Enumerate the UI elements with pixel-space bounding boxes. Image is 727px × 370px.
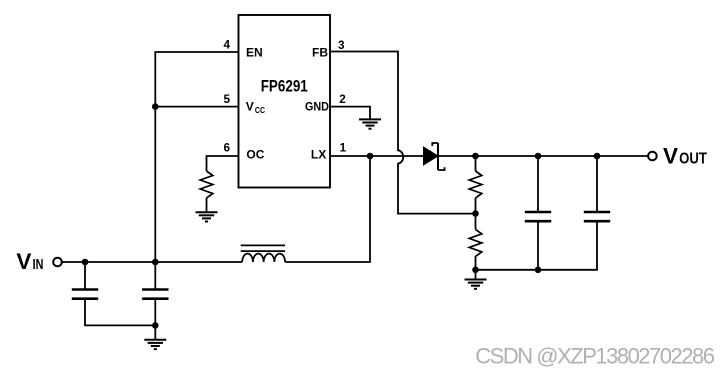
svg-text:OUT: OUT (679, 151, 707, 168)
svg-text:CSDN @XZP13802702286: CSDN @XZP13802702286 (475, 344, 714, 369)
svg-text:FP6291: FP6291 (261, 77, 309, 96)
svg-text:FB: FB (312, 45, 328, 59)
svg-text:GND: GND (305, 101, 329, 114)
svg-text:3: 3 (338, 39, 345, 52)
svg-text:CC: CC (255, 106, 265, 116)
svg-text:2: 2 (339, 93, 346, 106)
svg-text:6: 6 (223, 142, 230, 155)
svg-text:V: V (16, 249, 31, 274)
svg-text:EN: EN (246, 45, 263, 59)
svg-text:IN: IN (33, 255, 44, 272)
svg-text:OC: OC (246, 148, 264, 162)
svg-text:1: 1 (340, 141, 347, 154)
svg-text:LX: LX (311, 148, 326, 162)
svg-text:V: V (246, 100, 254, 114)
svg-text:5: 5 (223, 93, 230, 106)
svg-text:4: 4 (223, 39, 230, 52)
svg-text:V: V (663, 144, 678, 169)
